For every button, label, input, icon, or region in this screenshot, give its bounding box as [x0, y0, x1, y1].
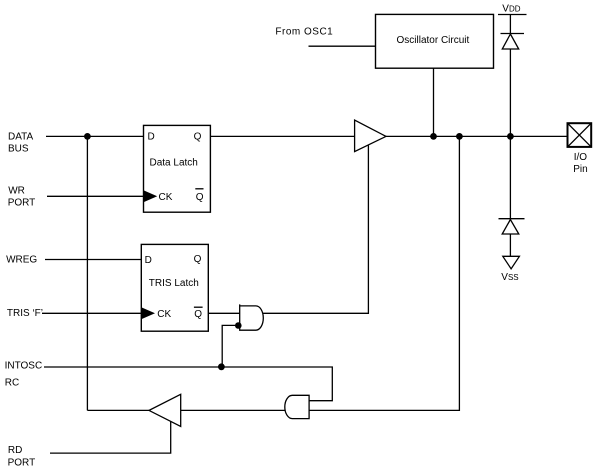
wire TRIS 'F' to TRIS Latch CK — [42, 312, 141, 314]
svg-text:CK: CK — [159, 192, 173, 203]
svg-text:RD: RD — [8, 445, 22, 456]
pin I/O Pin pad — [568, 123, 592, 175]
svg-text:D: D — [145, 255, 152, 266]
diode D1 to VDD — [501, 34, 525, 50]
wire RD PORT to buffer enable — [50, 421, 171, 453]
gate G1 AND — [240, 304, 264, 330]
wire WR PORT to Data Latch CK — [47, 195, 144, 197]
block U4 Oscillator Circuit — [376, 14, 494, 68]
node From OSC1 label — [275, 27, 333, 38]
diode D2 to VSS — [499, 219, 525, 234]
svg-text:Pin: Pin — [573, 164, 587, 175]
wire inverter output to data bus vertical — [87, 409, 149, 411]
svg-text:TRIS ‘F’: TRIS ‘F’ — [7, 308, 43, 319]
power VDD symbol — [498, 3, 527, 14]
node TRIS 'F' label — [7, 308, 43, 319]
wire G1 output to buffer enable — [263, 146, 369, 314]
svg-text:WREG: WREG — [6, 254, 37, 265]
node DATA BUS label — [8, 132, 34, 155]
wire DATA BUS to Data Latch D — [46, 135, 144, 137]
wire data-bus vertical feedback — [86, 136, 88, 410]
svg-text:From OSC1: From OSC1 — [275, 27, 333, 38]
svg-text:DATA: DATA — [8, 132, 34, 143]
wire diode D2 to VSS — [509, 234, 511, 256]
latch U1 Data Latch — [144, 125, 211, 212]
node data-bus junction — [84, 133, 91, 140]
pin U1 CK clock wedge — [144, 191, 157, 203]
svg-text:D: D — [148, 131, 155, 142]
svg-text:Q: Q — [194, 131, 202, 142]
node WREG label — [6, 254, 37, 265]
svg-text:PORT: PORT — [8, 458, 36, 469]
svg-text:VDD: VDD — [502, 3, 520, 14]
svg-text:Oscillator Circuit: Oscillator Circuit — [397, 35, 470, 46]
wire G2 output to inverter input — [181, 409, 285, 411]
wire Data Latch Q to buffer input — [210, 135, 354, 137]
wire WREG to TRIS Latch D — [45, 259, 141, 261]
gate G2 AND mirrored — [285, 395, 309, 418]
svg-text:I/O: I/O — [574, 152, 588, 163]
svg-text:Q: Q — [196, 192, 204, 203]
svg-text:TRIS Latch: TRIS Latch — [149, 278, 199, 289]
node INTOSC RC label — [5, 360, 43, 388]
svg-text:Q: Q — [194, 309, 202, 320]
wire G1 lower input from INTOSC net — [222, 325, 238, 367]
wire pin net down to diode D2 — [509, 136, 511, 218]
wire feedback from pin net down — [309, 136, 459, 410]
buffer U5 read buffer — [149, 394, 181, 426]
wire TRIS Latch Q-bar to AND gate G1 — [208, 312, 239, 314]
node G1 lower-input junction — [235, 322, 242, 329]
node feedback junction — [456, 133, 463, 140]
node RD PORT label — [8, 445, 36, 468]
power VSS symbol — [501, 256, 519, 283]
svg-text:VSS: VSS — [501, 272, 518, 283]
wire From OSC1 to oscillator circuit — [309, 45, 376, 47]
pin U2 Q-bar overline — [194, 306, 203, 308]
node oscillator junction — [430, 133, 437, 140]
wire buffer output to I/O pin — [386, 135, 568, 137]
svg-text:RC: RC — [5, 377, 19, 388]
svg-text:INTOSC: INTOSC — [5, 360, 43, 371]
wire VDD to diode D1 — [509, 15, 511, 34]
node WR PORT label — [8, 186, 36, 209]
svg-text:WR: WR — [8, 186, 25, 197]
svg-text:Q: Q — [194, 254, 202, 265]
node INTOSC junction — [218, 363, 225, 370]
latch U2 TRIS Latch — [141, 244, 208, 331]
wire diode D1 to pin net — [509, 49, 511, 136]
pin U2 CK clock wedge — [142, 308, 155, 320]
svg-text:Data Latch: Data Latch — [150, 158, 198, 169]
wire oscillator output down to pin net — [433, 68, 435, 136]
svg-text:BUS: BUS — [8, 143, 29, 154]
buffer U3 output tri-state — [355, 120, 386, 152]
svg-text:CK: CK — [157, 309, 171, 320]
svg-text:PORT: PORT — [8, 197, 36, 208]
pin U1 Q-bar overline — [195, 188, 203, 190]
node diode junction — [507, 133, 514, 140]
wire INTOSC net — [44, 367, 332, 401]
